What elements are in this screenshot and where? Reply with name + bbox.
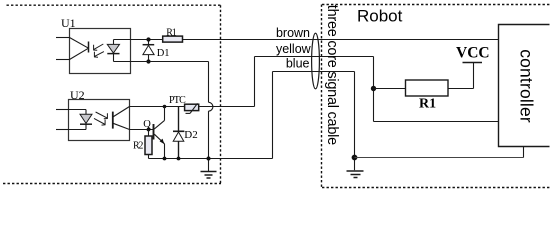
- thermistor PTC: [185, 103, 199, 113]
- svg-text:D2: D2: [184, 129, 197, 141]
- svg-text:Q: Q: [143, 119, 151, 130]
- resistor R1 (robot): [406, 80, 449, 96]
- wire yellow drop to R1 node and controller: [373, 57, 375, 122]
- svg-text:R1: R1: [166, 28, 176, 39]
- wire U1 top output (brown net): [114, 39, 163, 41]
- wire R1 to VCC: [448, 88, 474, 90]
- wire blue riser right / robot ground: [354, 72, 356, 171]
- node R1 junction: [371, 86, 376, 91]
- node collector: [163, 105, 167, 109]
- wire U1 bottom output to ground rail: [114, 61, 209, 63]
- ground (sensor): [201, 172, 217, 179]
- node D2 bottom: [177, 157, 181, 161]
- wire yellow riser: [254, 57, 256, 107]
- wire sensor ground rail: [149, 158, 273, 160]
- svg-text:D1: D1: [157, 48, 170, 59]
- optocoupler U2 box: [69, 100, 130, 141]
- node D1 top: [146, 37, 150, 41]
- wire U1 input top: [56, 37, 70, 39]
- node D1 bottom: [146, 59, 150, 63]
- resistor R2: [148, 130, 150, 137]
- U1 LED: [70, 38, 89, 60]
- node robot ground: [352, 155, 358, 161]
- VCC bar: [463, 62, 483, 64]
- svg-text:Robot: Robot: [357, 7, 403, 26]
- wire U2 input bottom: [56, 129, 69, 131]
- wire blue: [273, 71, 355, 73]
- wire yellow: [255, 56, 374, 58]
- U2 light arrows: [94, 112, 108, 125]
- transistor Q: [130, 107, 165, 159]
- node base/R2: [147, 128, 151, 132]
- svg-text:U2: U2: [70, 88, 85, 102]
- resistor R1: [163, 36, 183, 42]
- controller box: [499, 25, 550, 147]
- cable ellipse: [312, 33, 320, 89]
- wire U2 input top: [56, 109, 69, 111]
- diode D2: [173, 107, 184, 159]
- svg-text:yellow: yellow: [276, 42, 312, 56]
- wire R1 to controller (brown): [183, 39, 499, 41]
- svg-text:PTC: PTC: [169, 95, 186, 106]
- optocoupler U1 box: [70, 29, 131, 74]
- node ground stem: [207, 157, 211, 161]
- svg-text:brown: brown: [276, 26, 310, 40]
- U2 LED: [69, 110, 93, 130]
- svg-text:VCC: VCC: [456, 45, 490, 62]
- node emitter: [163, 157, 167, 161]
- wire to R1: [374, 88, 406, 90]
- svg-text:U1: U1: [61, 16, 76, 30]
- svg-text:controller: controller: [517, 49, 537, 123]
- Robot dashed box: [322, 5, 552, 188]
- wire blue riser left: [272, 72, 274, 159]
- wire robot ground rail: [355, 157, 524, 159]
- ground (robot): [347, 171, 364, 178]
- svg-text:three core signal cable: three core signal cable: [324, 5, 340, 145]
- svg-text:R2: R2: [133, 141, 143, 152]
- U2 phototransistor: [113, 107, 130, 130]
- wire PTC net: [130, 106, 185, 108]
- U1 photodiode: [107, 40, 119, 62]
- wire U1 input bottom: [56, 59, 70, 61]
- svg-text:blue: blue: [286, 57, 310, 71]
- sensor dashed box: [3, 5, 222, 183]
- U1 light arrows: [93, 44, 104, 57]
- diode D1: [143, 40, 155, 62]
- svg-text:R1: R1: [419, 97, 436, 112]
- wire vertical to ground with hop: [209, 62, 213, 172]
